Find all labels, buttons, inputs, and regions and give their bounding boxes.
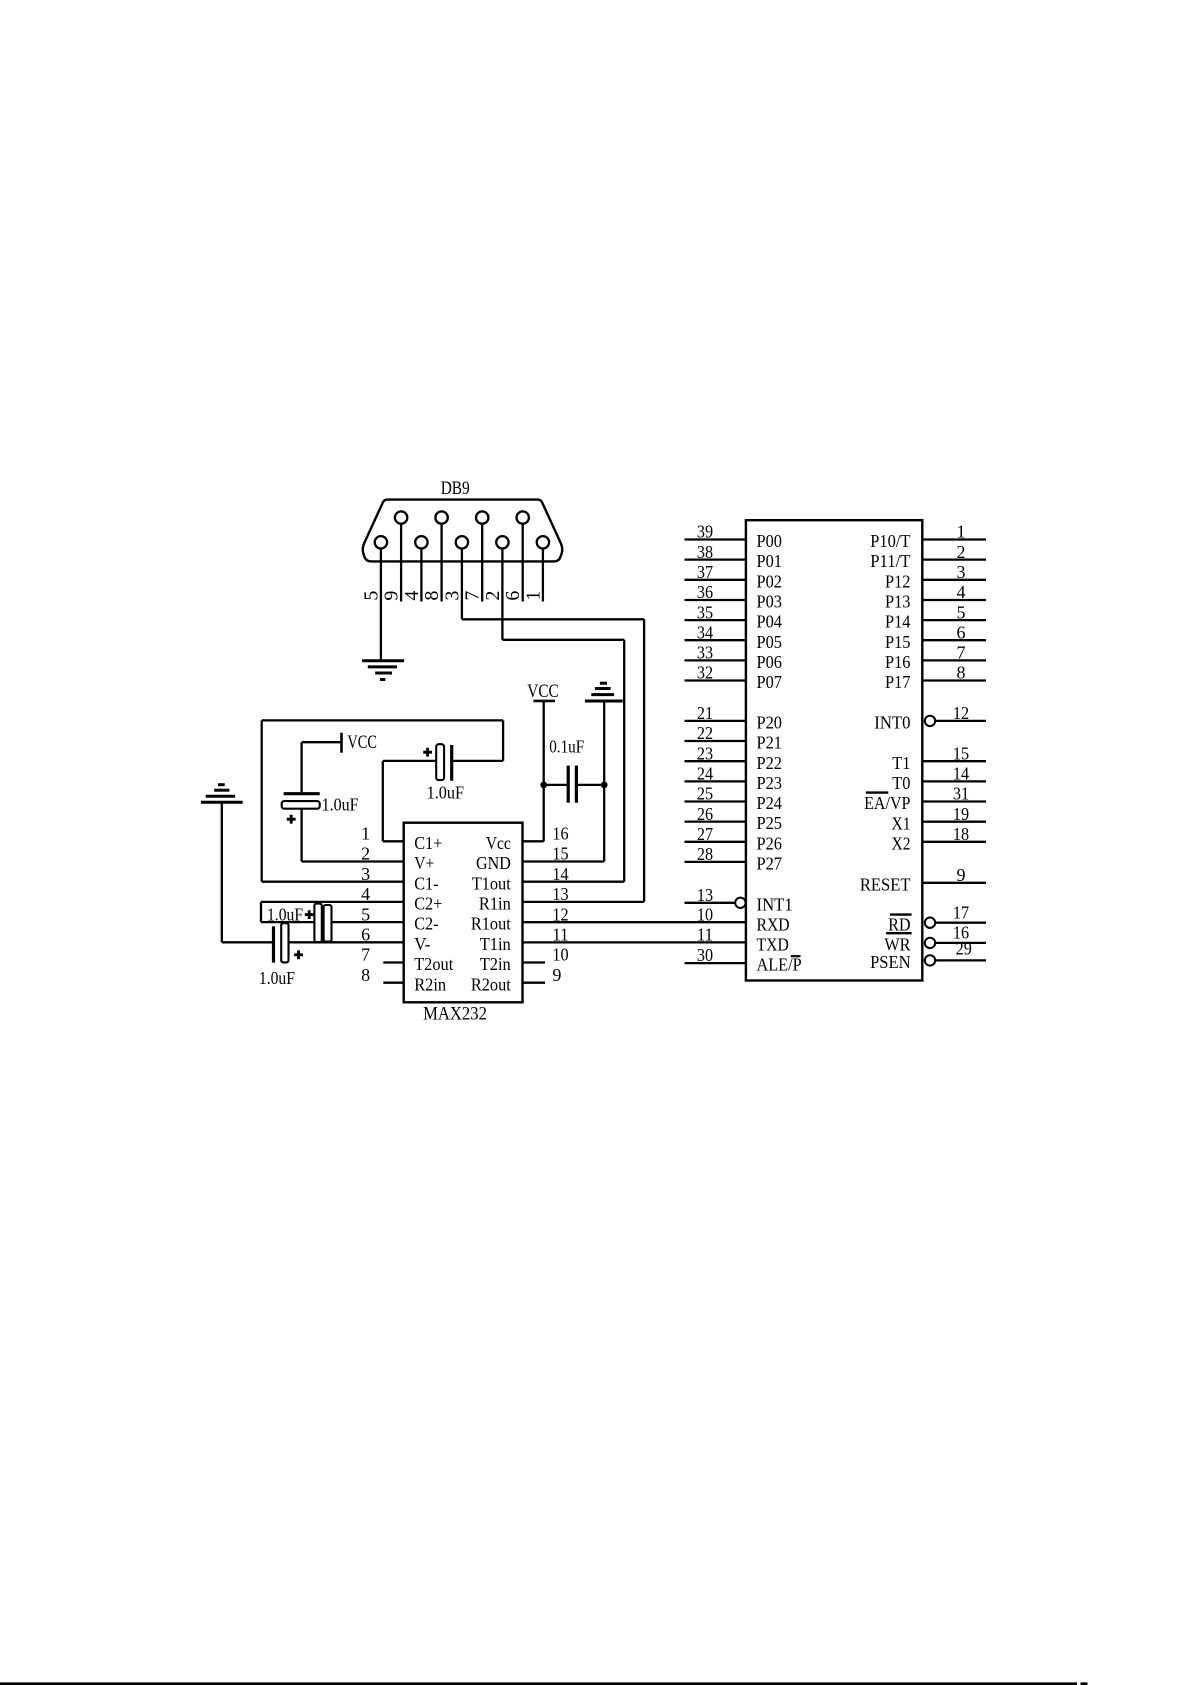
pin label WR with overbar (884, 933, 911, 954)
svg-text:15: 15 (953, 743, 969, 763)
svg-text:26: 26 (697, 804, 713, 824)
wire 8051 INT0 pin 12 (935, 720, 986, 722)
svg-text:3: 3 (957, 562, 966, 582)
svg-text:VCC: VCC (347, 732, 377, 753)
svg-text:R1in: R1in (479, 894, 511, 914)
wire ground to MAX232 GND (pin15) (523, 701, 605, 862)
svg-text:1.0uF: 1.0uF (267, 905, 303, 925)
pin label ALE/P with overbar (757, 955, 802, 975)
svg-text:2: 2 (361, 844, 370, 864)
svg-text:P01: P01 (757, 551, 783, 571)
svg-text:EA/VP: EA/VP (864, 793, 910, 813)
svg-text:P04: P04 (757, 612, 783, 632)
svg-text:30: 30 (697, 945, 713, 965)
svg-text:C1-: C1- (414, 873, 438, 893)
wire 8051 P00 pin 39 (685, 538, 746, 540)
svg-text:P21: P21 (757, 733, 783, 753)
svg-text:R1out: R1out (471, 914, 511, 934)
svg-text:2: 2 (957, 542, 966, 562)
capacitor C3 1.0uF (314, 904, 331, 943)
svg-text:4: 4 (957, 582, 966, 602)
wire 8051 P15 pin 6 (922, 639, 986, 641)
wire 8051 P14 pin 5 (922, 619, 986, 621)
svg-text:32: 32 (697, 663, 713, 683)
svg-text:22: 22 (697, 723, 713, 743)
svg-text:X2: X2 (892, 833, 911, 853)
svg-text:C1+: C1+ (414, 833, 442, 853)
wire 8051 P17 pin 8 (922, 679, 986, 681)
svg-text:1.0uF: 1.0uF (427, 782, 465, 802)
pin label RD with overbar (888, 914, 911, 934)
svg-text:P23: P23 (757, 773, 783, 793)
wire 8051 ALE/P pin 30 (685, 962, 746, 964)
wire 8051 P27 pin 28 (685, 861, 746, 863)
wire DB9 pin5 to ground (380, 602, 382, 661)
wire 8051 RESET pin 9 (922, 882, 986, 884)
wire 8051 WR pin 16 (935, 942, 986, 944)
svg-text:P27: P27 (757, 854, 783, 874)
svg-text:P12: P12 (885, 571, 911, 591)
svg-text:3: 3 (441, 591, 463, 601)
svg-text:7: 7 (957, 643, 966, 663)
svg-text:14: 14 (953, 764, 969, 784)
svg-text:P10/T: P10/T (870, 531, 910, 551)
svg-text:35: 35 (697, 602, 713, 622)
pin bubble WR (925, 938, 935, 948)
wire 8051 T1 pin 15 (922, 760, 986, 762)
wire 8051 PSEN pin 29 (935, 959, 986, 961)
svg-text:15: 15 (552, 844, 568, 864)
wire 8051 P26 pin 27 (685, 841, 746, 843)
wire 8051 P13 pin 4 (922, 599, 986, 601)
svg-text:1: 1 (361, 824, 370, 844)
svg-text:7: 7 (462, 591, 484, 601)
DB9 pin 3 (441, 536, 468, 601)
op-amp U1 8051 body (746, 520, 922, 980)
svg-text:P06: P06 (757, 652, 783, 672)
node A (VCC / 0.1uF) (540, 782, 547, 789)
svg-text:T1in: T1in (480, 934, 511, 954)
svg-text:P13: P13 (885, 592, 911, 612)
svg-text:2: 2 (482, 591, 504, 601)
svg-text:6: 6 (957, 622, 966, 642)
svg-text:24: 24 (697, 764, 713, 784)
svg-text:INT1: INT1 (757, 894, 793, 914)
wire 8051 P05 pin 34 (685, 639, 746, 641)
svg-text:5: 5 (361, 904, 370, 924)
svg-text:ALE/P: ALE/P (757, 955, 802, 975)
svg-text:P03: P03 (757, 592, 783, 612)
plus sign C1 (423, 751, 432, 754)
svg-text:VCC: VCC (527, 681, 558, 702)
svg-text:19: 19 (953, 804, 969, 824)
svg-text:P17: P17 (885, 672, 911, 692)
wire 8051 P03 pin 36 (685, 599, 746, 601)
plus sign C3 (305, 913, 314, 916)
svg-text:4: 4 (361, 884, 370, 904)
svg-text:P15: P15 (885, 632, 911, 652)
op-amp U2 MAX232 body (404, 823, 523, 1003)
wire 8051 RD pin 17 (935, 922, 986, 924)
DB9 pin 9 (381, 511, 408, 601)
svg-text:P20: P20 (757, 713, 783, 733)
svg-text:X1: X1 (892, 813, 911, 833)
svg-text:4: 4 (401, 591, 423, 601)
DB9 pin 6 (502, 511, 529, 601)
wire MAX232 C1- (pin3) loop (262, 720, 503, 881)
wire 8051 P02 pin 37 (685, 579, 746, 581)
DB9 pin 8 (421, 511, 448, 601)
ground symbol GND3 (left) (201, 785, 243, 803)
wire 8051 X2 pin 18 (922, 841, 986, 843)
svg-text:17: 17 (953, 902, 969, 922)
svg-text:8: 8 (361, 965, 370, 985)
svg-text:P24: P24 (757, 793, 783, 813)
svg-text:7: 7 (361, 945, 370, 965)
svg-text:R2in: R2in (414, 974, 446, 994)
svg-text:DB9: DB9 (441, 478, 470, 499)
wire DB9 pin2 to MAX232 T1out (pin14) (502, 602, 624, 882)
svg-text:5: 5 (957, 602, 966, 622)
svg-text:23: 23 (697, 743, 713, 763)
wire C2 to MAX232 V+ (pin2) (302, 809, 404, 862)
svg-text:34: 34 (697, 622, 713, 642)
pin stub MAX232 pin7 T2out (383, 961, 403, 963)
pin stub MAX232 pin9 R2out (523, 982, 546, 984)
svg-text:21: 21 (697, 703, 713, 723)
power symbol VCC (top) (527, 681, 558, 702)
svg-text:T1out: T1out (472, 873, 511, 893)
svg-text:12: 12 (953, 703, 969, 723)
svg-text:V-: V- (414, 934, 430, 954)
svg-text:P14: P14 (885, 612, 911, 632)
svg-text:9: 9 (957, 865, 966, 885)
svg-text:P22: P22 (757, 753, 783, 773)
wire MAX232 C2+ (pin4) (261, 902, 404, 922)
plus sign C4 (294, 953, 303, 956)
svg-text:18: 18 (953, 824, 969, 844)
wire 8051 P25 pin 26 (685, 820, 746, 822)
svg-text:13: 13 (697, 885, 713, 905)
svg-text:R2out: R2out (471, 974, 511, 994)
bottom rule dash (1081, 1682, 1088, 1685)
svg-text:9: 9 (381, 591, 403, 601)
svg-text:P05: P05 (757, 632, 783, 652)
svg-text:8: 8 (421, 591, 443, 601)
wire 8051 P10/T pin 1 (922, 538, 986, 540)
svg-text:10: 10 (552, 945, 568, 965)
svg-text:25: 25 (697, 784, 713, 804)
wire 8051 P06 pin 33 (685, 659, 746, 661)
svg-text:28: 28 (697, 844, 713, 864)
svg-text:14: 14 (552, 864, 568, 884)
svg-text:RD: RD (888, 914, 910, 934)
wire 8051 P24 pin 25 (685, 800, 746, 802)
svg-text:8: 8 (957, 663, 966, 683)
svg-text:10: 10 (697, 904, 713, 924)
capacitor 0.1uF (544, 766, 605, 803)
svg-text:29: 29 (956, 939, 972, 959)
svg-text:P16: P16 (885, 652, 911, 672)
svg-text:T0: T0 (892, 773, 910, 793)
svg-text:3: 3 (361, 864, 370, 884)
wire ground to capacitor C4 (222, 802, 272, 942)
svg-text:C2+: C2+ (414, 894, 442, 914)
wire VCC to capacitor C2 (302, 742, 342, 792)
svg-text:16: 16 (552, 824, 568, 844)
svg-text:39: 39 (697, 522, 713, 542)
svg-text:P00: P00 (757, 531, 783, 551)
svg-text:6: 6 (502, 591, 524, 601)
svg-text:37: 37 (697, 562, 713, 582)
power symbol VCC (rotated, left) (342, 732, 377, 753)
capacitor C1 1.0uF (electrolytic, horizontal) (436, 744, 452, 781)
wire MAX232 R1out (pin12) to 8051 RXD (pin10) (523, 921, 746, 923)
pin bubble RD (925, 918, 935, 928)
wire 8051 P04 pin 35 (685, 619, 746, 621)
svg-text:RXD: RXD (757, 915, 790, 935)
svg-text:0.1uF: 0.1uF (549, 737, 584, 757)
wire 8051 EA/VP pin 31 (922, 800, 986, 802)
svg-text:6: 6 (361, 925, 370, 945)
wire 8051 P12 pin 3 (922, 579, 986, 581)
wire C4 to MAX232 V- (pin6) (289, 941, 404, 943)
wire C1 to MAX232 C1+ (pin1) (383, 761, 436, 841)
svg-text:T1: T1 (892, 753, 910, 773)
pin stub MAX232 pin8 R2in (383, 982, 403, 984)
connector J1 DB9 body (363, 500, 562, 562)
svg-text:INT0: INT0 (874, 713, 910, 733)
wire 8051 P11/T pin 2 (922, 558, 986, 560)
pin bubble INT1 (735, 898, 745, 908)
wire 8051 P20 pin 21 (685, 720, 746, 722)
svg-text:GND: GND (476, 853, 511, 873)
wire 8051 P21 pin 22 (685, 740, 746, 742)
svg-text:27: 27 (697, 824, 713, 844)
wire 8051 P07 pin 32 (685, 679, 746, 681)
svg-text:1: 1 (522, 591, 544, 601)
svg-text:5: 5 (360, 591, 382, 601)
DB9 pin 2 (482, 536, 509, 601)
wire 8051 P16 pin 7 (922, 659, 986, 661)
svg-text:MAX232: MAX232 (423, 1004, 487, 1025)
svg-text:RESET: RESET (860, 874, 911, 894)
svg-text:P25: P25 (757, 813, 783, 833)
wire DB9 pin3 to MAX232 R1in (pin13) (462, 602, 644, 902)
wire 8051 T0 pin 14 (922, 780, 986, 782)
svg-text:TXD: TXD (757, 935, 789, 955)
svg-text:T2in: T2in (480, 954, 511, 974)
wire 8051 P23 pin 24 (685, 780, 746, 782)
svg-text:P26: P26 (757, 833, 783, 853)
plus sign C2 (287, 818, 296, 821)
svg-text:13: 13 (552, 884, 568, 904)
wire 8051 INT1 pin 13 (685, 902, 736, 904)
wire 8051 P22 pin 23 (685, 760, 746, 762)
svg-text:38: 38 (697, 542, 713, 562)
svg-text:31: 31 (953, 784, 969, 804)
bottom rule line (0, 1682, 1077, 1685)
DB9 pin 5 (360, 536, 387, 601)
pin label EA/VP with overbar (864, 793, 910, 814)
ground symbol GND2 (above 0.1uF) (585, 683, 623, 701)
svg-text:P11/T: P11/T (870, 551, 910, 571)
svg-text:11: 11 (697, 925, 713, 945)
wire 8051 X1 pin 19 (922, 821, 986, 823)
pin stub MAX232 pin10 T2in (523, 961, 546, 963)
svg-text:V+: V+ (414, 853, 434, 873)
pin bubble PSEN (925, 955, 935, 965)
svg-text:T2out: T2out (414, 954, 453, 974)
capacitor C4 1.0uF (electrolytic) (274, 923, 289, 962)
svg-text:Vcc: Vcc (486, 833, 511, 853)
wire VCC to MAX232 Vcc (pin16) (523, 701, 544, 841)
svg-text:9: 9 (552, 965, 561, 985)
svg-text:36: 36 (697, 582, 713, 602)
wire MAX232 C2- (pin5) (261, 921, 404, 923)
svg-text:1: 1 (957, 522, 966, 542)
DB9 pin 7 (462, 511, 489, 601)
node B (GND / 0.1uF) (601, 782, 608, 789)
DB9 pin 4 (401, 536, 428, 601)
svg-text:33: 33 (697, 643, 713, 663)
wire 8051 P01 pin 38 (685, 558, 746, 560)
svg-text:C2-: C2- (414, 914, 438, 934)
svg-text:P02: P02 (757, 571, 783, 591)
ground symbol GND1 (DB9 pin5) (362, 661, 404, 680)
svg-text:1.0uF: 1.0uF (259, 968, 295, 988)
capacitor C2 1.0uF (electrolytic, vertical) (282, 794, 320, 809)
DB9 pin 1 (522, 536, 549, 601)
svg-text:P07: P07 (757, 672, 783, 692)
svg-text:1.0uF: 1.0uF (322, 794, 359, 814)
svg-text:PSEN: PSEN (870, 952, 910, 972)
pin bubble INT0 (925, 716, 935, 726)
wire MAX232 T1in (pin11) to 8051 TXD (pin11) (523, 941, 746, 943)
